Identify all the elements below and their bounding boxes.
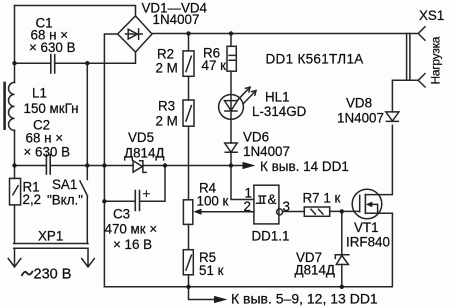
diode bridge VD1-VD4 (118, 16, 152, 52)
inductor L1 (9, 82, 15, 130)
transistor Q2 substrate arrowhead (366, 202, 373, 208)
node R2 top (186, 31, 190, 35)
wire rail x87 (86, 63, 88, 165)
wire mid row y165.5 (15, 165, 243, 167)
resistor R5 (188, 224, 190, 249)
svg-text:VD6: VD6 (243, 130, 269, 145)
capacitor C3 (104, 166, 165, 202)
svg-text:R2: R2 (157, 47, 174, 62)
svg-text:2 М: 2 М (156, 61, 178, 76)
wire R6 to LED to VD6 (230, 71, 232, 143)
wire bottom rail (104, 213, 392, 286)
node C1 left (12, 61, 16, 65)
resistor R6 (230, 34, 232, 47)
label 230V tilde (22, 272, 32, 276)
svg-text:× 630 В: × 630 В (29, 40, 76, 55)
op-amp U1 gate DD1.1 (254, 185, 279, 224)
svg-text:68 н ×: 68 н × (26, 131, 64, 146)
svg-text:2 М: 2 М (156, 114, 178, 129)
resistor R3 (188, 76, 190, 100)
svg-text:470 мк ×: 470 мк × (105, 222, 158, 237)
arrow to pin14 (243, 162, 256, 169)
svg-text:2,2: 2,2 (23, 192, 42, 207)
svg-text:230 В: 230 В (34, 267, 72, 283)
diode VD6 (225, 143, 238, 152)
svg-text:&: & (268, 192, 277, 207)
svg-text:3: 3 (283, 199, 290, 214)
trimmer R4 (183, 200, 192, 225)
resistor R7 (304, 207, 329, 216)
plug XP1 (14, 244, 88, 249)
socket XS1 contacts (418, 27, 425, 40)
node SA1 top (85, 163, 89, 167)
svg-text:× 16 В: × 16 В (113, 237, 152, 252)
switch SA1 (80, 166, 88, 244)
svg-text:IRF840: IRF840 (346, 235, 390, 250)
node VD5 cathode (163, 163, 167, 167)
arrow to pins 5-9 (214, 296, 228, 303)
svg-text:R7 1 к: R7 1 к (303, 191, 341, 206)
wire R4 wiper to pin2 (201, 211, 254, 213)
zener VD5 D814D (133, 161, 146, 173)
svg-text:XS1: XS1 (419, 8, 444, 23)
svg-text:К выв. 14 DD1: К выв. 14 DD1 (260, 159, 349, 174)
wire bridge left corner to minus rail (104, 34, 117, 287)
svg-text:"Вкл.": "Вкл." (47, 193, 83, 208)
LED HL1 (219, 95, 244, 120)
wire top rail right from bridge (152, 33, 418, 35)
svg-text:Нагрузка: Нагрузка (429, 36, 443, 84)
svg-text:100 к: 100 к (197, 194, 229, 209)
svg-text:К выв. 5–9, 12, 13 DD1: К выв. 5–9, 12, 13 DD1 (231, 291, 378, 307)
svg-text:Д814Д: Д814Д (124, 146, 164, 161)
svg-text:VD8: VD8 (346, 96, 372, 111)
svg-text:L-314GD: L-314GD (252, 104, 307, 119)
node C1 right (85, 61, 89, 65)
node VD6 bottom (229, 163, 233, 167)
wire C1 row (15, 52, 136, 63)
wire VD6 node down to pin1 (231, 166, 254, 200)
node R5 bottom (186, 285, 190, 289)
svg-text:× 630 В: × 630 В (24, 145, 71, 160)
svg-text:SA1: SA1 (52, 177, 77, 192)
zener VD7 (341, 211, 343, 254)
wire left rail upper (14, 6, 16, 83)
resistor R1 (10, 178, 21, 205)
node R6 top (229, 31, 233, 35)
svg-text:Д814Д: Д814Д (295, 263, 335, 278)
node minus mid (102, 163, 106, 167)
svg-text:47 к: 47 к (202, 58, 227, 73)
transistor VT1 IRF840 (352, 189, 382, 219)
wire R3 to R4 (188, 126, 190, 200)
node VD7 bottom (340, 285, 344, 289)
svg-text:51 к: 51 к (199, 263, 224, 278)
node C2 left (12, 163, 16, 167)
resistor R2 (188, 34, 190, 51)
svg-text:1N4007: 1N4007 (153, 12, 200, 27)
svg-text:2: 2 (244, 199, 251, 214)
wire bottom tap arrow (189, 287, 215, 300)
wire left rail middle (14, 130, 16, 178)
svg-text:1N4007: 1N4007 (243, 144, 290, 159)
svg-text:150 мкГн: 150 мкГн (24, 101, 79, 116)
L1 core (3, 83, 6, 129)
svg-text:C3: C3 (113, 207, 130, 222)
capacitor C2 (46, 155, 50, 174)
svg-text:R3: R3 (158, 99, 175, 114)
svg-text:DD1.1: DD1.1 (252, 229, 290, 244)
wire left rail to plug (14, 205, 16, 244)
svg-text:VT1: VT1 (354, 220, 379, 235)
wire top rail from left rail to bridge top (15, 6, 136, 17)
diode VD8 (386, 112, 399, 122)
node VT1 gate (340, 209, 344, 213)
svg-text:HL1: HL1 (265, 90, 290, 105)
capacitor C1 (51, 55, 55, 73)
svg-text:XP1: XP1 (38, 229, 63, 244)
svg-text:DD1 К561ТЛ1А: DD1 К561ТЛ1А (266, 52, 364, 67)
trimmer R4 wiper arrow (194, 209, 202, 215)
svg-text:L1: L1 (32, 86, 47, 101)
node C3 left (102, 199, 106, 203)
svg-text:VD5: VD5 (128, 130, 154, 145)
svg-text:1N4007: 1N4007 (337, 111, 384, 126)
